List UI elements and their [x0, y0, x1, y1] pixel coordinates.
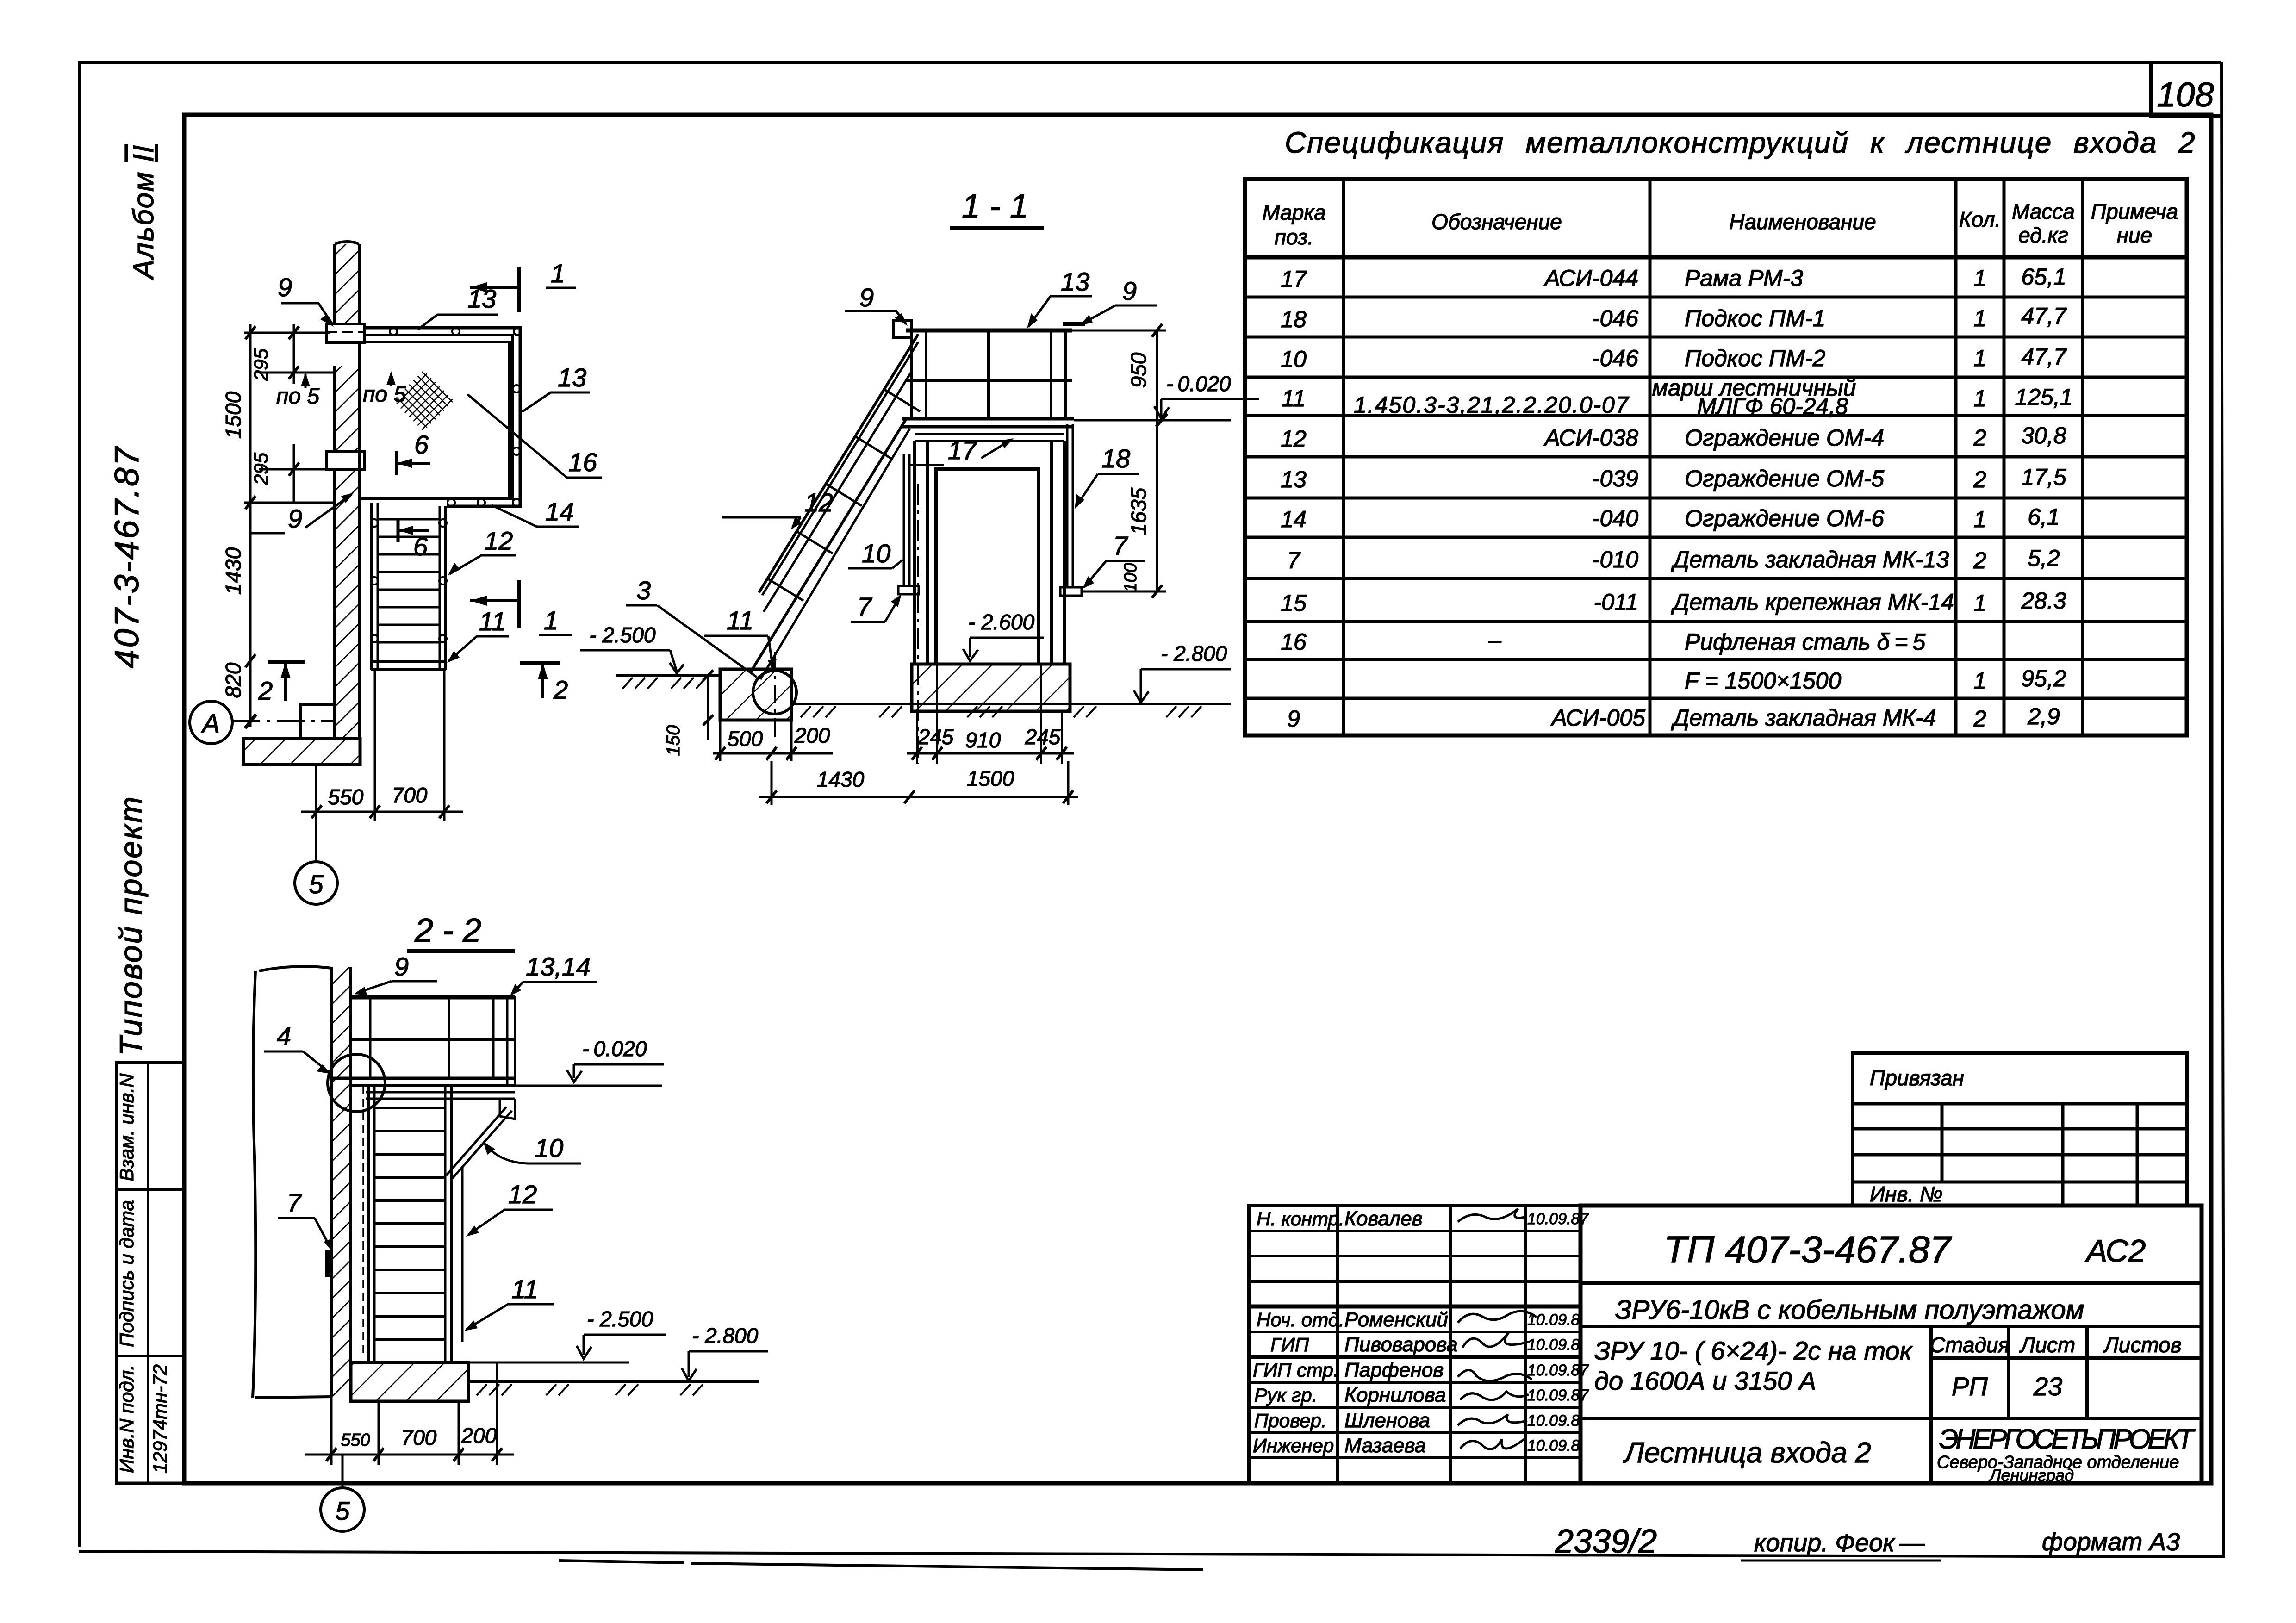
svg-text:1635: 1635 [1126, 487, 1151, 535]
svg-text:245: 245 [918, 725, 954, 749]
svg-text:95,2: 95,2 [2021, 665, 2066, 691]
svg-text:Спецификация металлоконструкци: Спецификация металлоконструкций к лестни… [1285, 126, 2196, 159]
svg-text:-046: -046 [1592, 345, 1638, 371]
svg-text:13,14: 13,14 [526, 952, 591, 981]
svg-text:4: 4 [277, 1021, 291, 1051]
svg-text:12: 12 [508, 1180, 537, 1209]
svg-text:7: 7 [857, 592, 872, 621]
svg-text:14: 14 [545, 497, 574, 526]
svg-text:Марка: Марка [1262, 200, 1325, 224]
svg-text:11: 11 [479, 607, 506, 636]
label 11 view1 [447, 607, 509, 663]
svg-text:Ковалев: Ковалев [1344, 1207, 1423, 1230]
label 12 (2-2) [466, 1180, 553, 1237]
svg-text:Ограждение ОМ-4: Ограждение ОМ-4 [1685, 425, 1884, 451]
svg-text:- 2.500: - 2.500 [589, 623, 656, 647]
title block: main part [1580, 1206, 2202, 1485]
svg-text:Подкос ПМ-2: Подкос ПМ-2 [1685, 345, 1826, 371]
svg-text:150: 150 [663, 725, 684, 756]
label 9 (mid) view1 [250, 492, 354, 533]
svg-text:Мазаева: Мазаева [1344, 1434, 1426, 1457]
stairs (plan) [371, 503, 447, 670]
svg-text:28.3: 28.3 [2021, 588, 2066, 614]
svg-text:10.09.8: 10.09.8 [1527, 1336, 1580, 1354]
svg-text:Инженер: Инженер [1253, 1435, 1334, 1456]
svg-text:100: 100 [1121, 563, 1140, 592]
label 11 (2-2) [464, 1275, 554, 1331]
svg-text:Рама РМ-3: Рама РМ-3 [1685, 265, 1803, 291]
svg-text:АСИ-038: АСИ-038 [1543, 425, 1639, 451]
svg-text:820: 820 [221, 662, 245, 698]
svg-text:АСИ-044: АСИ-044 [1543, 265, 1639, 291]
svg-text:12: 12 [804, 488, 833, 517]
svg-text:Подкос ПМ-1: Подкос ПМ-1 [1685, 305, 1825, 331]
svg-text:-046: -046 [1592, 305, 1638, 331]
svg-text:12: 12 [484, 526, 513, 555]
svg-text:Ограждение ОМ-5: Ограждение ОМ-5 [1685, 466, 1884, 491]
section mark 2 (right) view1 [520, 663, 568, 704]
dims 500 200 (1-1) [713, 720, 833, 761]
svg-text:-039: -039 [1592, 466, 1638, 491]
svg-text:2: 2 [258, 676, 273, 705]
label 11 (1-1) [704, 606, 777, 672]
spec table title [1285, 126, 2196, 159]
label 9 right (1-1) [1080, 276, 1157, 325]
svg-text:9: 9 [288, 504, 302, 533]
spec table header text [1262, 199, 2178, 249]
opening behind frame [936, 469, 1039, 664]
svg-text:2,9: 2,9 [2027, 703, 2060, 729]
svg-text:2: 2 [553, 675, 568, 704]
platform floor plate 16 (plan) [359, 342, 510, 499]
svg-text:18: 18 [1281, 306, 1307, 332]
svg-text:13: 13 [1061, 267, 1089, 296]
svg-text:Рук гр.: Рук гр. [1254, 1384, 1317, 1406]
ground line (2-2) [468, 1382, 759, 1395]
svg-text:11: 11 [1282, 386, 1306, 411]
svg-text:-010: -010 [1592, 547, 1638, 572]
svg-text:47,7: 47,7 [2021, 344, 2067, 370]
svg-text:МЛГФ 60-24,8: МЛГФ 60-24,8 [1697, 393, 1848, 419]
svg-text:Провер.: Провер. [1254, 1410, 1327, 1431]
svg-text:- 2.800: - 2.800 [1161, 641, 1227, 665]
label 9 (top) view1 [278, 273, 334, 327]
svg-text:108: 108 [2157, 75, 2214, 114]
svg-text:125,1: 125,1 [2015, 384, 2072, 410]
dims 550 700 200 (2-2) [305, 1362, 514, 1465]
stair flight (марш 11) elevation [751, 334, 920, 679]
svg-text:ед.кг: ед.кг [2018, 223, 2068, 247]
svg-text:ГИП: ГИП [1270, 1334, 1309, 1356]
svg-text:7: 7 [1287, 547, 1301, 573]
label 13 (top) view1 [418, 284, 498, 330]
embedded plate 9 lower [327, 451, 365, 469]
svg-text:Деталь закладная МК-4: Деталь закладная МК-4 [1671, 705, 1936, 731]
label 14 view1 [492, 497, 579, 527]
label 12 view1 [448, 526, 516, 575]
svg-text:-040: -040 [1592, 505, 1638, 531]
svg-text:17: 17 [1281, 266, 1307, 292]
main drawing frame [184, 115, 2211, 1483]
level -2.500 (2-2) [468, 1307, 666, 1362]
svg-text:РП: РП [1952, 1372, 1988, 1401]
svg-text:ЗРУ6-10кВ с кобельным полу: ЗРУ6-10кВ с кобельным полуэтажом [1615, 1295, 2084, 1325]
svg-text:А: А [201, 709, 219, 738]
level -0.020 (2-2) [515, 1037, 664, 1086]
svg-text:2: 2 [1973, 425, 1986, 451]
footing of wall view1 (hatched) [243, 739, 360, 765]
svg-text:910: 910 [965, 728, 1001, 752]
svg-text:Ноч. отд.: Ноч. отд. [1257, 1309, 1344, 1331]
circled axis A [190, 701, 335, 744]
svg-text:1.450.3-3,21,2.2.20.0-07: 1.450.3-3,21,2.2.20.0-07 [1354, 392, 1630, 418]
svg-text:18: 18 [1101, 444, 1130, 473]
label 4 (2-2) [264, 1021, 331, 1074]
svg-text:по 5: по 5 [276, 384, 319, 409]
svg-text:Масса: Масса [2012, 199, 2075, 224]
dimension chain left of view1 [221, 324, 406, 728]
spec table rows text [1281, 264, 2072, 732]
svg-text:–: – [1488, 627, 1502, 653]
label 10 (2-2) [483, 1133, 581, 1163]
svg-text:Рифленая сталь δ = 5: Рифленая сталь δ = 5 [1685, 629, 1925, 655]
svg-text:- 2.600: - 2.600 [968, 610, 1035, 634]
svg-text:Парфенов: Парфенов [1344, 1359, 1444, 1381]
svg-text:Роменский: Роменский [1344, 1308, 1448, 1331]
left margin vertical text: Альбом II [128, 144, 160, 280]
svg-text:Инв. №: Инв. № [1870, 1182, 1943, 1206]
svg-text:10: 10 [535, 1133, 563, 1163]
svg-text:500: 500 [728, 727, 763, 751]
svg-text:9: 9 [1287, 706, 1300, 732]
level -2.600 [963, 610, 1044, 661]
svg-text:по 5: по 5 [363, 382, 406, 407]
svg-text:23: 23 [2033, 1372, 2062, 1401]
svg-text:5,2: 5,2 [2028, 545, 2060, 571]
svg-text:1: 1 [544, 606, 558, 635]
svg-text:1: 1 [551, 259, 565, 288]
svg-text:10.09.8: 10.09.8 [1527, 1311, 1580, 1329]
label 7 right (1-1) [1083, 531, 1145, 589]
svg-text:13: 13 [558, 363, 586, 392]
svg-text:Деталь закладная МК-13: Деталь закладная МК-13 [1671, 547, 1949, 572]
axis line to circle 5 view1 [295, 765, 337, 904]
detail circle 4 (2-2) [328, 1054, 385, 1112]
view 1-1 title [950, 188, 1044, 228]
svg-text:- 2.500: - 2.500 [587, 1307, 653, 1331]
svg-text:Альбом II: Альбом II [128, 144, 160, 280]
svg-text:Лестница входа 2: Лестница входа 2 [1623, 1437, 1871, 1469]
svg-text:9: 9 [1122, 276, 1137, 305]
svg-text:Стадия: Стадия [1930, 1333, 2010, 1357]
label 13 top (1-1) [1027, 267, 1092, 329]
svg-text:1500: 1500 [221, 391, 245, 439]
svg-text:10.09.8: 10.09.8 [1527, 1412, 1580, 1430]
platform railing elevation (13) [906, 330, 1072, 419]
axis dash lines under legs [917, 484, 1062, 764]
svg-text:ЗРУ 10- ( 6×24)- 2с на ток: ЗРУ 10- ( 6×24)- 2с на ток [1594, 1336, 1913, 1365]
svg-text:Наименование: Наименование [1729, 210, 1876, 234]
Привязан table [1853, 1053, 2187, 1206]
bottom annotations under frame [559, 1523, 2180, 1570]
svg-text:200: 200 [461, 1424, 497, 1448]
svg-text:Кол.: Кол. [1959, 207, 2001, 231]
label 12 (1-1) [722, 488, 833, 529]
svg-text:16: 16 [568, 448, 597, 477]
svg-text:Деталь крепежная МК-14: Деталь крепежная МК-14 [1671, 589, 1954, 615]
svg-text:14: 14 [1281, 506, 1307, 532]
svg-text:- 2.800: - 2.800 [692, 1324, 759, 1348]
svg-text:Пивоварова: Пивоварова [1344, 1333, 1458, 1356]
stair base detail circle 3 [753, 652, 796, 740]
svg-text:Корнилова: Корнилова [1344, 1384, 1446, 1406]
left bottom small table (Взам.инв N / Подпись и дата / Инв.N подл.) [116, 1063, 184, 1483]
svg-text:Н. контр.: Н. контр. [1257, 1208, 1344, 1230]
section mark 1 (top) view1 [470, 259, 576, 312]
level -0.020 (1-1) [1074, 372, 1259, 427]
section mark 6 lower [398, 518, 429, 561]
wall base block view1 [300, 705, 335, 739]
view 2-2 title [407, 912, 515, 951]
svg-text:7: 7 [287, 1188, 302, 1217]
svg-text:17,5: 17,5 [2021, 464, 2066, 490]
svg-text:200: 200 [794, 723, 830, 747]
stair footing (1-1) [720, 669, 791, 720]
label 13,14 (2-2) [510, 952, 597, 996]
side railing right (18) [1060, 424, 1166, 596]
svg-text:11: 11 [511, 1275, 538, 1304]
wall strip (hatched) view1 [335, 242, 359, 739]
svg-text:до 1600А и 3150 А: до 1600А и 3150 А [1594, 1366, 1816, 1395]
dims 550 / 700 view1 [301, 670, 463, 821]
svg-text:13: 13 [1281, 466, 1307, 492]
svg-text:3: 3 [636, 576, 651, 605]
left margin vertical text: Типовой проект [113, 795, 149, 1056]
svg-text:17: 17 [948, 435, 977, 465]
ground line left (-2.500) [616, 675, 721, 689]
svg-text:700: 700 [392, 783, 428, 807]
svg-text:поз.: поз. [1275, 225, 1314, 249]
label 3 (1-1) [626, 576, 757, 677]
svg-text:ЭНЕРГОСЕТЬПРОЕКТ: ЭНЕРГОСЕТЬПРОЕКТ [1939, 1424, 2196, 1455]
svg-text:1430: 1430 [817, 767, 865, 791]
dim 150 (1-1) [663, 670, 713, 756]
svg-text:ние: ние [2117, 223, 2152, 247]
svg-text:9: 9 [394, 952, 409, 981]
svg-text:2: 2 [1973, 547, 1986, 573]
label 18 (1-1) [1075, 444, 1139, 509]
wall block 2-2 [253, 966, 351, 1398]
label 9 (2-2) [354, 952, 437, 995]
svg-text:ГИП стр.: ГИП стр. [1253, 1359, 1339, 1381]
left margin vertical text: 407-3-467.87 [108, 445, 146, 668]
label 16 view1 [467, 394, 602, 478]
svg-text:Примеча: Примеча [2091, 199, 2178, 224]
svg-text:6: 6 [414, 430, 429, 459]
platform railing (plan, items 13) [365, 328, 521, 506]
svg-text:1: 1 [1973, 305, 1986, 331]
svg-text:47,7: 47,7 [2021, 303, 2067, 329]
svg-text:1: 1 [1973, 386, 1986, 411]
svg-text:Взам. инв.N: Взам. инв.N [116, 1073, 137, 1181]
side railing left (ограждение 10 side) [898, 454, 919, 594]
svg-text:Подпись и дата: Подпись и дата [116, 1200, 137, 1347]
svg-text:1430: 1430 [221, 547, 245, 595]
svg-text:16: 16 [1281, 629, 1307, 655]
svg-text:407-3-467.87: 407-3-467.87 [108, 445, 146, 668]
svg-text:Листов: Листов [2103, 1333, 2182, 1357]
svg-text:1: 1 [1973, 668, 1986, 694]
svg-text:Инв.N подл.: Инв.N подл. [116, 1365, 137, 1473]
svg-text:9: 9 [278, 273, 292, 302]
label 7 left (1-1) [851, 592, 902, 622]
platform railing 2-2 [351, 996, 515, 1086]
svg-text:1 - 1: 1 - 1 [962, 188, 1028, 225]
svg-text:950: 950 [1126, 352, 1151, 388]
plate 9 right (top corner) [1063, 322, 1085, 326]
svg-text:АСИ-005: АСИ-005 [1550, 705, 1646, 731]
svg-text:11: 11 [727, 606, 753, 635]
svg-text:- 0.020: - 0.020 [1166, 372, 1231, 396]
svg-text:Шленова: Шленова [1344, 1409, 1430, 1432]
embedded plate 9 upper (wall/platform) [327, 324, 365, 342]
bottom dims 1430 1500 [759, 761, 1078, 805]
circle 5 bottom (2-2) [321, 1455, 364, 1531]
svg-text:1: 1 [1973, 506, 1986, 532]
svg-text:Типовой проект: Типовой проект [113, 795, 149, 1056]
label 17 (1-1) [909, 435, 1014, 465]
frame beam 17 [915, 434, 1064, 441]
svg-text:5: 5 [335, 1496, 350, 1525]
frame footing (1-1, hatched) [912, 664, 1070, 711]
svg-text:10.09.8: 10.09.8 [1527, 1437, 1580, 1455]
svg-text:10: 10 [862, 539, 890, 568]
svg-text:2: 2 [1973, 706, 1986, 732]
dim 950 / 1635 / 100 (right of 1-1) [1072, 324, 1166, 598]
svg-text:-011: -011 [1594, 589, 1638, 615]
spec table grid [1245, 179, 2187, 735]
signatures squiggles [1458, 1209, 1537, 1449]
svg-text:12974тн-72: 12974тн-72 [149, 1364, 171, 1474]
svg-text:1: 1 [1973, 590, 1986, 616]
svg-text:2: 2 [1973, 466, 1986, 492]
svg-text:245: 245 [1025, 725, 1061, 749]
svg-text:ТП 407-3-467.87: ТП 407-3-467.87 [1664, 1229, 1953, 1271]
svg-text:10: 10 [1281, 346, 1307, 372]
label 10 (1-1) [848, 539, 902, 568]
svg-text:Привязан: Привязан [1870, 1066, 1964, 1090]
svg-text:формат А3: формат А3 [2042, 1528, 2180, 1556]
svg-text:9: 9 [859, 283, 874, 312]
ground line right (-2.800) [791, 704, 1231, 717]
platform floor slab elevation [902, 419, 1074, 427]
section mark 1 (bottom) view1 [470, 580, 572, 635]
label 9 top (1-1) [845, 283, 908, 326]
dims 245 910 245 [907, 725, 1074, 760]
svg-text:550: 550 [328, 785, 364, 809]
svg-text:65,1: 65,1 [2021, 264, 2066, 290]
svg-text:Ограждение ОМ-6: Ограждение ОМ-6 [1685, 505, 1884, 531]
svg-text:15: 15 [1281, 590, 1307, 616]
svg-text:700: 700 [401, 1425, 437, 1449]
strut 10 (2-2) [446, 1107, 512, 1179]
svg-text:30,8: 30,8 [2021, 423, 2066, 448]
level -2.800 (1-1) [1134, 641, 1231, 703]
svg-text:1: 1 [1973, 265, 1986, 291]
section mark 6 upper [397, 430, 430, 475]
svg-text:550: 550 [341, 1430, 370, 1450]
level -2.500 (1-1 left) [580, 623, 684, 673]
svg-text:F = 1500×1500: F = 1500×1500 [1685, 668, 1841, 694]
section mark 2 (left) view1 [258, 662, 305, 705]
svg-text:2339/2: 2339/2 [1555, 1523, 1657, 1560]
svg-text:1500: 1500 [967, 766, 1014, 790]
platform floor 2-2 [331, 1078, 515, 1119]
svg-text:5: 5 [309, 870, 324, 899]
svg-text:Обозначение: Обозначение [1431, 210, 1562, 234]
mesh patch (рифленая сталь) [393, 370, 454, 431]
svg-text:- 0.020: - 0.020 [582, 1037, 647, 1061]
svg-text:6,1: 6,1 [2028, 504, 2060, 530]
title block: signatures table [1249, 1206, 1589, 1483]
svg-text:копир. Феок —: копир. Феок — [1754, 1529, 1925, 1557]
label 13 (right) view1 [522, 363, 590, 412]
svg-text:295: 295 [250, 348, 272, 381]
stair footing (2-2) [351, 1362, 468, 1401]
label 7 (2-2) [278, 1188, 332, 1277]
svg-text:Ленинград: Ленинград [1989, 1466, 2074, 1485]
svg-text:12: 12 [1281, 426, 1307, 452]
svg-text:2 - 2: 2 - 2 [414, 912, 481, 949]
svg-text:АС2: АС2 [2084, 1233, 2146, 1269]
frame legs (рама 17) [915, 441, 1064, 664]
svg-text:1: 1 [1973, 345, 1986, 371]
plate 9 left (top corner) [893, 321, 912, 337]
level -2.800 (2-2) [682, 1324, 768, 1381]
svg-text:Лист: Лист [2019, 1333, 2075, 1357]
stairs 2-2 (steps) [363, 1086, 462, 1362]
page number box 108 [2151, 62, 2221, 116]
svg-text:295: 295 [250, 452, 272, 485]
